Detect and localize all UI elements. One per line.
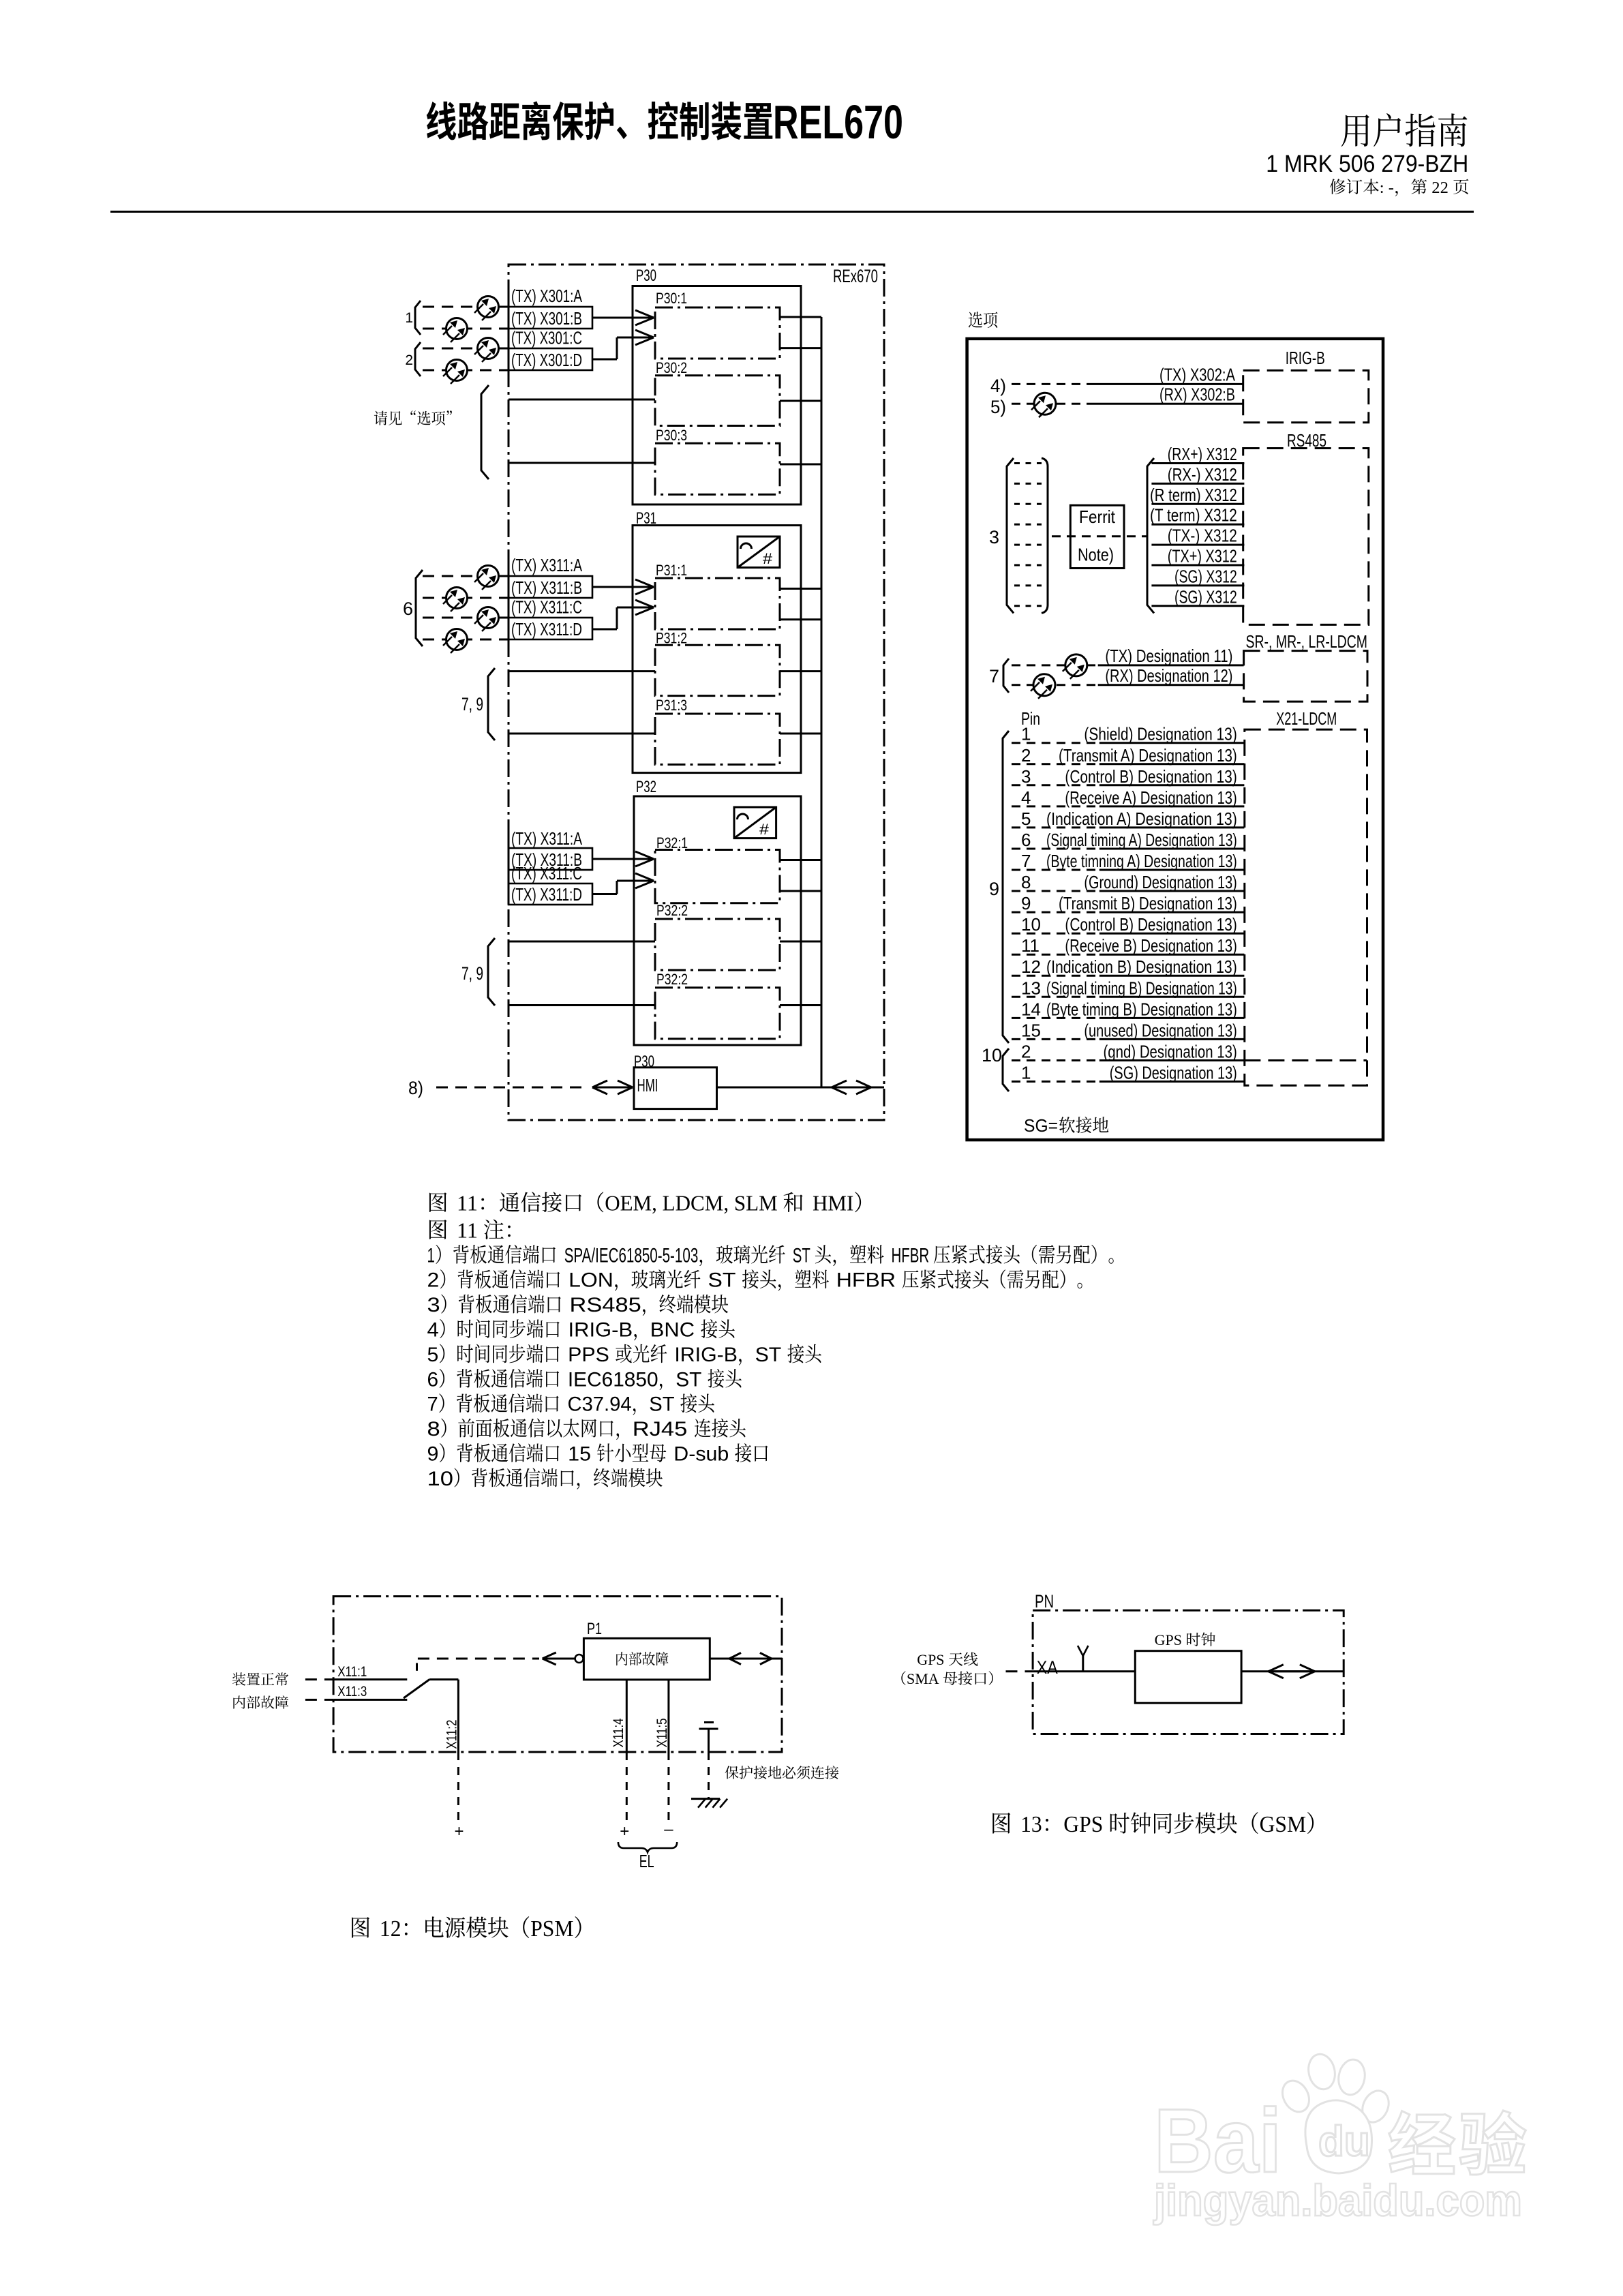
svg-text:12: 12	[1021, 956, 1041, 977]
svg-text:11: 11	[457, 1191, 478, 1215]
svg-text:X11:2: X11:2	[444, 1720, 460, 1749]
svg-text:14: 14	[1021, 999, 1041, 1019]
svg-text:+: +	[620, 1822, 629, 1841]
svg-text:4: 4	[427, 1319, 439, 1342]
svg-text:7, 9: 7, 9	[461, 694, 483, 714]
svg-text:P30: P30	[636, 267, 656, 285]
svg-text:8: 8	[1021, 872, 1031, 892]
svg-text:6: 6	[427, 1368, 439, 1391]
svg-text:GSM: GSM	[1260, 1812, 1307, 1837]
svg-text:(Byte timing B) Designation 13: (Byte timing B) Designation 13)	[1046, 999, 1237, 1019]
svg-text:(RX-) X312: (RX-) X312	[1168, 464, 1237, 485]
svg-text:8: 8	[427, 1418, 440, 1440]
svg-text:(TX) X301:B: (TX) X301:B	[511, 308, 582, 329]
svg-text:SPA/IEC61850-5-103: SPA/IEC61850-5-103	[564, 1244, 699, 1267]
svg-text:1 MRK 506 279-BZH: 1 MRK 506 279-BZH	[1266, 151, 1468, 177]
svg-text:7: 7	[427, 1393, 438, 1416]
svg-text:(RX+) X312: (RX+) X312	[1168, 444, 1237, 464]
svg-text:X21-LDCM: X21-LDCM	[1276, 708, 1337, 729]
svg-text:(Shield) Designation 13): (Shield) Designation 13)	[1084, 724, 1237, 744]
svg-text:9: 9	[989, 879, 999, 899]
svg-text:P32: P32	[636, 778, 656, 796]
svg-text:(Control B) Designation 13): (Control B) Designation 13)	[1065, 914, 1237, 935]
svg-text:HMI: HMI	[637, 1075, 658, 1096]
svg-text:1: 1	[1021, 1063, 1031, 1083]
svg-text:(SG) Designation 13): (SG) Designation 13)	[1110, 1063, 1237, 1083]
svg-text:P32:2: P32:2	[656, 902, 688, 919]
svg-text:(Signal timing A) Designation: (Signal timing A) Designation 13)	[1046, 830, 1237, 850]
svg-text:HFBR: HFBR	[892, 1244, 930, 1267]
svg-text:1: 1	[405, 310, 413, 326]
svg-text:7: 7	[989, 666, 999, 686]
svg-text:REx670: REx670	[833, 266, 878, 286]
svg-text:5: 5	[1021, 809, 1031, 829]
svg-text:10: 10	[427, 1468, 453, 1490]
svg-text:HFBR: HFBR	[836, 1269, 896, 1292]
svg-text:ST: ST	[708, 1269, 736, 1292]
svg-text:3: 3	[989, 527, 999, 547]
svg-text:(SG) X312: (SG) X312	[1174, 586, 1237, 607]
svg-text:10: 10	[1021, 914, 1041, 935]
svg-text:IRIG-B: IRIG-B	[1286, 348, 1325, 368]
svg-text:RS485: RS485	[570, 1294, 641, 1316]
svg-text:8): 8)	[408, 1078, 423, 1098]
svg-text:RJ45: RJ45	[633, 1418, 688, 1440]
svg-text:12: 12	[380, 1916, 401, 1942]
svg-text:(T term) X312: (T term) X312	[1150, 505, 1237, 526]
svg-text:(Transmit B) Designation 13): (Transmit B) Designation 13)	[1059, 893, 1237, 913]
svg-text:D-sub: D-sub	[673, 1443, 729, 1466]
svg-text:2: 2	[405, 352, 413, 368]
svg-text:(Transmit A) Designation 13): (Transmit A) Designation 13)	[1059, 745, 1237, 766]
svg-text:XA: XA	[1037, 1657, 1058, 1678]
svg-text:P1: P1	[587, 1620, 602, 1638]
svg-text:SMA: SMA	[907, 1670, 939, 1687]
svg-text:(TX) X311:C: (TX) X311:C	[511, 863, 582, 883]
svg-text:(TX) X311:B: (TX) X311:B	[511, 577, 582, 598]
svg-text:5: 5	[427, 1344, 439, 1366]
svg-text:(R term) X312: (R term) X312	[1150, 485, 1237, 505]
svg-text:(RX) X302:B: (RX) X302:B	[1159, 384, 1235, 405]
svg-text:4): 4)	[990, 376, 1006, 396]
svg-text:3: 3	[1021, 766, 1031, 787]
svg-text:#: #	[763, 550, 773, 567]
svg-text:(TX) X301:A: (TX) X301:A	[511, 286, 582, 306]
svg-text:6: 6	[403, 599, 413, 619]
svg-text:15: 15	[1021, 1020, 1041, 1040]
svg-text:(TX-) X312: (TX-) X312	[1168, 526, 1237, 546]
svg-text:1: 1	[427, 1244, 435, 1267]
svg-text:11: 11	[1021, 935, 1040, 956]
svg-text:(TX) X311:D: (TX) X311:D	[511, 884, 582, 905]
svg-text:SG=: SG=	[1024, 1115, 1058, 1136]
svg-text:P30:1: P30:1	[656, 290, 687, 307]
svg-text:IEC61850: IEC61850	[568, 1368, 658, 1391]
svg-text:7: 7	[1021, 851, 1031, 871]
svg-text:10: 10	[982, 1045, 1002, 1066]
svg-text:2: 2	[1021, 745, 1031, 766]
svg-text:(TX) X311:A: (TX) X311:A	[511, 555, 582, 575]
svg-text:(Receive B) Designation 13): (Receive B) Designation 13)	[1065, 935, 1237, 956]
svg-text:REL670: REL670	[773, 95, 903, 149]
svg-text:(gnd) Designation 13): (gnd) Designation 13)	[1104, 1042, 1237, 1062]
svg-text:HMI: HMI	[813, 1191, 853, 1215]
svg-text:ST: ST	[793, 1244, 810, 1267]
svg-text:P30:3: P30:3	[656, 427, 687, 444]
svg-text:jingyan.baidu.com: jingyan.baidu.com	[1153, 2175, 1522, 2225]
svg-text:9: 9	[427, 1443, 439, 1466]
svg-text:(unused) Designation 13): (unused) Designation 13)	[1084, 1020, 1237, 1040]
svg-text:GPS: GPS	[917, 1651, 944, 1668]
svg-text:EL: EL	[639, 1851, 654, 1871]
svg-text:9: 9	[1021, 893, 1031, 913]
svg-text:2: 2	[1021, 1042, 1031, 1062]
svg-text:5): 5)	[990, 397, 1006, 417]
svg-text:(Byte timning A) Designation 1: (Byte timning A) Designation 13)	[1046, 851, 1237, 871]
svg-text:13: 13	[1021, 978, 1041, 998]
svg-text:(TX) X311:A: (TX) X311:A	[511, 828, 582, 849]
svg-text:IRIG-B: IRIG-B	[674, 1344, 738, 1366]
svg-text:X11:5: X11:5	[654, 1718, 670, 1747]
svg-text:–: –	[664, 1820, 673, 1839]
svg-text:(Control B) Designation 13): (Control B) Designation 13)	[1065, 766, 1237, 787]
svg-text:PPS: PPS	[568, 1344, 609, 1366]
svg-text:PN: PN	[1035, 1591, 1054, 1612]
svg-text:C37.94: C37.94	[568, 1393, 632, 1416]
svg-text:(Indication A) Designation 13): (Indication A) Designation 13)	[1046, 809, 1237, 829]
svg-text:(Signal timing B) Designation: (Signal timing B) Designation 13)	[1046, 978, 1237, 998]
svg-text:(TX) X302:A: (TX) X302:A	[1159, 365, 1236, 385]
svg-text:(TX) X301:D: (TX) X301:D	[511, 350, 582, 370]
svg-text:P31:3: P31:3	[656, 697, 687, 714]
svg-text:Ferrit: Ferrit	[1079, 507, 1116, 527]
svg-text:13: 13	[1020, 1812, 1042, 1837]
svg-text:7, 9: 7, 9	[461, 963, 483, 984]
svg-text:(SG) X312: (SG) X312	[1174, 566, 1237, 586]
svg-text:(Indication B) Designation 13): (Indication B) Designation 13)	[1046, 956, 1237, 977]
svg-text:X11:4: X11:4	[611, 1718, 626, 1747]
svg-text:(TX) X301:C: (TX) X301:C	[511, 328, 582, 348]
svg-text:15: 15	[568, 1443, 591, 1466]
svg-text:(TX) X311:D: (TX) X311:D	[511, 619, 582, 639]
svg-text:6: 6	[1021, 830, 1031, 850]
svg-text:(Receive A) Designation 13): (Receive A) Designation 13)	[1065, 787, 1237, 808]
svg-text:2: 2	[427, 1269, 440, 1292]
svg-text:ST: ST	[755, 1344, 782, 1366]
svg-text:(RX) Designation 12): (RX) Designation 12)	[1105, 665, 1232, 686]
svg-text:11: 11	[457, 1218, 478, 1242]
svg-text:3: 3	[427, 1294, 440, 1316]
svg-text:du: du	[1318, 2118, 1370, 2165]
svg-text:ST: ST	[649, 1393, 674, 1416]
svg-text:X11:3: X11:3	[337, 1684, 367, 1700]
svg-text:1: 1	[1021, 724, 1031, 744]
svg-text:P30:2: P30:2	[656, 359, 687, 376]
svg-text:OEM, LDCM, SLM: OEM, LDCM, SLM	[605, 1191, 777, 1215]
svg-text:BNC: BNC	[650, 1319, 695, 1342]
svg-text:22: 22	[1431, 179, 1448, 197]
svg-text:SR-, MR-, LR-LDCM: SR-, MR-, LR-LDCM	[1246, 631, 1368, 652]
svg-text:Note): Note)	[1078, 545, 1114, 565]
svg-text:+: +	[454, 1822, 464, 1841]
svg-text:(TX) Designation 11): (TX) Designation 11)	[1105, 646, 1232, 666]
svg-text:X11:1: X11:1	[337, 1664, 367, 1680]
svg-text:LON: LON	[568, 1269, 613, 1292]
svg-text:: -: : -	[1380, 179, 1394, 197]
svg-text:4: 4	[1021, 787, 1031, 808]
svg-text:(TX) X311:C: (TX) X311:C	[511, 597, 582, 618]
svg-text:GPS: GPS	[1155, 1631, 1182, 1648]
svg-text:(Ground) Designation 13): (Ground) Designation 13)	[1084, 872, 1237, 892]
svg-text:PSM: PSM	[530, 1916, 573, 1942]
svg-text:IRIG-B: IRIG-B	[568, 1319, 633, 1342]
svg-text:GPS: GPS	[1063, 1812, 1103, 1837]
svg-text:P31:1: P31:1	[656, 562, 687, 579]
svg-text:(TX+) X312: (TX+) X312	[1168, 546, 1237, 567]
svg-text:#: #	[759, 821, 770, 838]
svg-text:ST: ST	[676, 1368, 701, 1391]
svg-text:P32:2: P32:2	[656, 971, 688, 988]
